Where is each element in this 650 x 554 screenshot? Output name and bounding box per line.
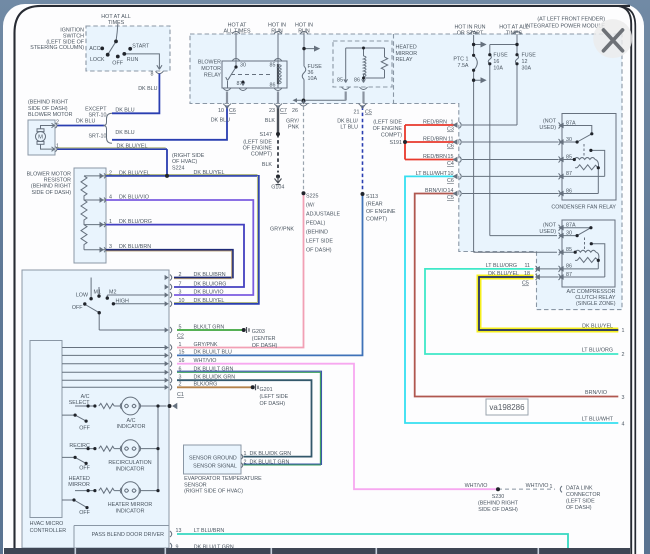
svg-text:EVAPORATOR TEMPERATURE: EVAPORATOR TEMPERATURE <box>184 476 262 482</box>
svg-text:LT BLU/ORG: LT BLU/ORG <box>582 347 613 353</box>
svg-text:MIRROR: MIRROR <box>396 51 418 57</box>
svg-text:DK BLU/YEL: DK BLU/YEL <box>119 170 150 176</box>
svg-text:OF HVAC): OF HVAC) <box>172 159 197 165</box>
gry/pnk solid S225 down to pin1 C2 <box>177 193 304 347</box>
svg-text:DK BLU/LT BLU: DK BLU/LT BLU <box>194 350 233 356</box>
svg-text:30: 30 <box>240 63 246 69</box>
svg-text:SENSOR SIGNAL: SENSOR SIGNAL <box>193 464 237 470</box>
svg-text:10A: 10A <box>308 76 318 82</box>
ignition switch dashed box <box>86 26 170 71</box>
svg-text:A/C: A/C <box>127 418 136 424</box>
svg-text:15: 15 <box>448 154 454 160</box>
svg-text:DK BLU: DK BLU <box>115 108 134 114</box>
lt blu/org wire to pin2 <box>425 269 618 354</box>
svg-text:BRN/VIO: BRN/VIO <box>425 188 447 194</box>
hot at all times right column + fuse12 <box>462 35 517 125</box>
blk/lt grn pin5 to G203 <box>177 329 244 331</box>
svg-text:FUSE: FUSE <box>522 53 537 59</box>
sensor box pins <box>241 454 243 468</box>
svg-text:RECIRC: RECIRC <box>69 443 90 449</box>
wht/vio pin16 to S230 <box>177 364 498 490</box>
svg-text:18: 18 <box>524 271 530 277</box>
integrated power module shaded region <box>190 34 622 310</box>
svg-text:(BEHIND: (BEHIND <box>306 230 328 236</box>
svg-text:8: 8 <box>151 72 154 78</box>
svg-text:1: 1 <box>179 342 182 348</box>
svg-text:S191: S191 <box>390 140 403 146</box>
ground G104 <box>275 177 282 185</box>
svg-text:TIMES: TIMES <box>108 20 125 26</box>
svg-text:87: 87 <box>566 272 572 278</box>
off switch 2 <box>62 457 86 463</box>
IPM dashed outline <box>190 34 622 310</box>
svg-text:OR START: OR START <box>457 31 484 37</box>
svg-text:LT BLU: LT BLU <box>340 125 358 131</box>
svg-text:11: 11 <box>524 263 530 269</box>
dk blu merged to blower motor <box>57 125 105 127</box>
svg-text:10: 10 <box>218 108 224 114</box>
a/c relay 86 87 left gray stubs <box>537 269 559 277</box>
svg-text:OFF: OFF <box>79 466 90 472</box>
condenser relay pin connectors <box>559 123 561 197</box>
svg-text:A/C: A/C <box>81 394 90 400</box>
svg-text:3: 3 <box>179 289 182 295</box>
svg-text:2: 2 <box>179 382 182 388</box>
svg-text:RELAY: RELAY <box>204 72 222 78</box>
svg-text:2: 2 <box>179 272 182 278</box>
svg-text:PEDAL): PEDAL) <box>306 221 326 227</box>
blower relay coil <box>277 61 279 64</box>
condenser relay feed wires inside IPM <box>462 142 559 194</box>
ignition switch wiper feed <box>108 24 118 55</box>
svg-text:(RIGHT SIDE OF HVAC): (RIGHT SIDE OF HVAC) <box>184 489 243 495</box>
svg-text:87A: 87A <box>566 120 576 126</box>
svg-text:7: 7 <box>179 281 182 287</box>
svg-text:SIDE OF DASH): SIDE OF DASH) <box>478 507 518 513</box>
resistor chain <box>84 176 106 250</box>
svg-text:M1: M1 <box>94 290 101 296</box>
svg-text:4: 4 <box>622 422 625 428</box>
svg-text:va198286: va198286 <box>489 403 525 412</box>
wht/vio dashed S230 to data link <box>498 488 555 490</box>
svg-text:10A: 10A <box>493 66 503 72</box>
hvac outer box bottom step <box>74 526 169 549</box>
svg-text:C4: C4 <box>447 161 454 167</box>
svg-text:26: 26 <box>292 108 298 114</box>
svg-text:30: 30 <box>566 230 572 236</box>
svg-text:85: 85 <box>337 78 343 84</box>
svg-text:(BEHIND RIGHT: (BEHIND RIGHT <box>31 184 72 190</box>
svg-text:DATA LINK: DATA LINK <box>566 486 593 492</box>
IPM top bumps <box>232 32 521 35</box>
svg-text:1: 1 <box>550 484 553 490</box>
svg-text:15: 15 <box>179 350 185 356</box>
dk blu/vio resistor pin4 to switch M2 <box>106 200 253 295</box>
ground G203 <box>247 327 250 333</box>
svg-text:2: 2 <box>56 120 59 126</box>
svg-text:OF DASH): OF DASH) <box>252 343 278 349</box>
blower relay feed hot at all times <box>235 33 237 61</box>
svg-text:OF ENGINE: OF ENGINE <box>366 209 396 215</box>
svg-text:(REAR: (REAR <box>366 202 383 208</box>
svg-text:DK BLU/YEL: DK BLU/YEL <box>194 298 225 304</box>
svg-text:WHT/VIO: WHT/VIO <box>194 358 217 364</box>
dk blu srt-10 from relay 87 <box>112 107 227 140</box>
svg-text:16: 16 <box>493 59 499 65</box>
svg-text:1: 1 <box>244 451 247 457</box>
svg-text:LOCK: LOCK <box>90 57 105 63</box>
blower motor symbol <box>36 132 46 142</box>
condenser relay internals <box>562 126 592 143</box>
svg-text:TIMES: TIMES <box>506 31 523 37</box>
blower relay switch <box>226 61 236 88</box>
condenser fan relay box <box>562 114 616 201</box>
svg-text:85: 85 <box>566 247 572 253</box>
svg-text:SELECT: SELECT <box>69 400 91 406</box>
PTC 1 column <box>474 35 557 252</box>
a/c select row <box>75 403 167 409</box>
a/c relay dashed-edge connectors for 86 87 <box>536 266 538 280</box>
hvac outer box fill <box>22 270 169 548</box>
hvac c2 c1 connector rows inside <box>62 348 166 388</box>
dk blu/lt blu solid S113 down <box>177 194 363 355</box>
ignition bottom bump <box>117 25 119 27</box>
heated mirror relay internals <box>344 48 385 83</box>
blower motor resistor box fill <box>74 168 106 263</box>
svg-text:DK BLU/YEL: DK BLU/YEL <box>117 144 148 150</box>
svg-text:INDICATOR: INDICATOR <box>116 466 145 472</box>
svg-text:INDICATOR: INDICATOR <box>117 424 146 430</box>
svg-text:HEATED: HEATED <box>396 45 417 51</box>
svg-text:(BEHIND RIGHT: (BEHIND RIGHT <box>28 100 69 106</box>
svg-text:BLK/ORG: BLK/ORG <box>194 382 218 388</box>
data link connector bracket <box>560 486 562 492</box>
svg-text:RED/BRN: RED/BRN <box>423 120 447 126</box>
blower relay bottom stubs <box>226 92 228 104</box>
svg-text:(LEFT SIDE: (LEFT SIDE <box>566 499 595 505</box>
svg-text:86: 86 <box>566 188 572 194</box>
svg-text:MOTOR: MOTOR <box>201 66 221 72</box>
svg-text:C3: C3 <box>447 127 454 133</box>
svg-text:DK BLU/YEL: DK BLU/YEL <box>194 170 225 176</box>
svg-text:1: 1 <box>56 144 59 150</box>
svg-text:USED): USED) <box>539 229 556 235</box>
svg-text:OF DASH): OF DASH) <box>566 505 592 511</box>
svg-text:SENSOR GROUND: SENSOR GROUND <box>189 455 237 461</box>
svg-text:1: 1 <box>109 219 112 225</box>
gry/pnk dashed pin26 to S225 <box>303 107 305 194</box>
svg-text:SRT-10: SRT-10 <box>88 134 106 140</box>
bottom bar <box>4 548 630 554</box>
svg-text:(NOT: (NOT <box>543 119 557 125</box>
svg-text:(W/: (W/ <box>306 203 315 209</box>
svg-text:ALL TIMES: ALL TIMES <box>223 29 250 35</box>
svg-text:DK BLU: DK BLU <box>138 86 157 92</box>
svg-text:2: 2 <box>244 460 247 466</box>
svg-text:M: M <box>38 135 43 141</box>
svg-text:LT BLU/WHT: LT BLU/WHT <box>416 171 448 177</box>
svg-text:BLK/LT GRN: BLK/LT GRN <box>194 324 225 330</box>
svg-text:87A: 87A <box>566 223 576 229</box>
dk blu/brn resistor pin3 to switch low <box>106 250 233 278</box>
svg-text:C2: C2 <box>177 333 184 339</box>
dk blu/dk grn pin3 to sensor pin1 <box>177 380 312 456</box>
svg-text:C6: C6 <box>229 108 236 114</box>
svg-text:3: 3 <box>109 244 112 250</box>
svg-text:BLK: BLK <box>262 162 273 168</box>
svg-text:CONDENSER FAN RELAY: CONDENSER FAN RELAY <box>551 205 616 211</box>
svg-text:23: 23 <box>269 108 275 114</box>
svg-text:RUN: RUN <box>298 29 310 35</box>
svg-text:6: 6 <box>179 367 182 373</box>
svg-text:G104: G104 <box>271 185 284 191</box>
svg-text:GRY/PNK: GRY/PNK <box>270 227 294 233</box>
svg-text:INTEGRATED POWER MODULE: INTEGRATED POWER MODULE <box>525 23 605 29</box>
svg-text:PASS BLEND DOOR DRIVER: PASS BLEND DOOR DRIVER <box>92 532 164 538</box>
fuse 16 <box>488 45 557 236</box>
svg-text:BLOWER MOTOR: BLOWER MOTOR <box>27 171 72 177</box>
a/c relay pin connectors <box>559 225 561 280</box>
svg-text:DK BLU/ORG: DK BLU/ORG <box>194 281 227 287</box>
svg-text:HEATER MIRROR: HEATER MIRROR <box>108 502 153 508</box>
svg-text:A/C COMPRESSOR: A/C COMPRESSOR <box>567 289 616 295</box>
a/c relay internals <box>562 228 591 236</box>
svg-text:S225: S225 <box>306 194 319 200</box>
svg-text:2: 2 <box>622 352 625 358</box>
svg-text:5: 5 <box>179 324 182 330</box>
svg-text:30A: 30A <box>522 66 532 72</box>
svg-text:13: 13 <box>176 528 182 534</box>
svg-text:DK BLU: DK BLU <box>211 118 230 124</box>
down arrows into colored wires <box>225 105 365 108</box>
resistor pin bumps <box>104 173 106 252</box>
svg-text:COMPT): COMPT) <box>366 217 387 223</box>
off switch 3 <box>62 500 87 508</box>
svg-text:CONNECTOR: CONNECTOR <box>566 492 600 498</box>
svg-text:ACC: ACC <box>89 46 100 52</box>
brn/vio pin14 C5 wire <box>415 194 619 397</box>
svg-text:OF ENGINE: OF ENGINE <box>373 126 403 132</box>
svg-text:16: 16 <box>179 358 185 364</box>
svg-text:FUSE: FUSE <box>493 53 508 59</box>
svg-text:OF DASH): OF DASH) <box>306 248 332 254</box>
blower motor box fill <box>28 120 55 155</box>
fuse 36 tap arrow <box>304 46 319 50</box>
svg-text:RECIRCULATION: RECIRCULATION <box>108 460 151 466</box>
svg-text:DK BLU/ORG: DK BLU/ORG <box>119 219 152 225</box>
heated mirror relay pin85 wire to fuse36 junction <box>296 92 346 100</box>
svg-text:S147: S147 <box>260 132 273 138</box>
svg-text:DK BLU/DK GRN: DK BLU/DK GRN <box>250 451 292 457</box>
va198286 label box <box>486 399 528 415</box>
svg-text:(LEFT SIDE: (LEFT SIDE <box>373 120 402 126</box>
svg-text:14: 14 <box>448 188 454 194</box>
svg-text:BLOWER MOTOR: BLOWER MOTOR <box>28 112 73 118</box>
heated mirror relay dashed box <box>333 41 392 87</box>
svg-text:RELAY: RELAY <box>396 57 414 63</box>
svg-text:OFF: OFF <box>79 510 90 516</box>
svg-text:RED/BRN: RED/BRN <box>423 154 447 160</box>
svg-text:RUN: RUN <box>271 29 283 35</box>
svg-text:C5: C5 <box>447 195 454 201</box>
lt blu/wht pin10 C6 wire <box>405 176 618 423</box>
svg-text:USED): USED) <box>539 125 556 131</box>
svg-text:DK BLU/YEL: DK BLU/YEL <box>488 271 519 277</box>
svg-text:COMPT): COMPT) <box>381 133 402 139</box>
svg-text:CONTROLLER: CONTROLLER <box>30 528 67 534</box>
svg-text:GRY/PNK: GRY/PNK <box>194 342 218 348</box>
svg-text:DK BLU/BRN: DK BLU/BRN <box>119 244 151 250</box>
svg-text:2: 2 <box>109 170 112 176</box>
svg-text:12: 12 <box>522 59 528 65</box>
svg-text:3: 3 <box>622 395 625 401</box>
dk blu/yel S224 row to switch high <box>106 175 259 304</box>
IPM internal dashed divider <box>393 34 395 104</box>
svg-text:HEATED: HEATED <box>69 476 90 482</box>
svg-text:21: 21 <box>354 110 360 116</box>
svg-text:OF DASH): OF DASH) <box>260 401 286 407</box>
svg-text:SRT-10: SRT-10 <box>88 113 106 119</box>
svg-text:RESISTOR: RESISTOR <box>44 178 71 184</box>
dk blu/yel blower motor pin1 to S224 <box>57 148 167 176</box>
svg-text:G201: G201 <box>260 387 273 393</box>
svg-text:LT BLU/ORG: LT BLU/ORG <box>486 263 517 269</box>
ignition switch box fill <box>86 26 170 71</box>
blower motor relay solid box <box>222 61 287 88</box>
svg-text:86: 86 <box>270 83 276 89</box>
svg-text:C1: C1 <box>177 392 184 398</box>
svg-text:DK BLU/DK GRN: DK BLU/DK GRN <box>194 375 236 381</box>
svg-text:DK BLU/VIO: DK BLU/VIO <box>119 195 149 201</box>
ignition run wire <box>124 54 159 69</box>
svg-text:BLK: BLK <box>265 118 276 124</box>
svg-text:DK BLU: DK BLU <box>115 130 134 136</box>
svg-text:CLUTCH RELAY: CLUTCH RELAY <box>575 295 616 301</box>
svg-text:DK BLU: DK BLU <box>76 119 95 125</box>
evaporator sensor box fill <box>184 445 242 474</box>
resistor box pin arrows <box>100 174 103 252</box>
svg-text:WHT/VIO: WHT/VIO <box>526 483 549 489</box>
svg-text:DK BLU/VIO: DK BLU/VIO <box>194 289 224 295</box>
svg-text:START: START <box>132 44 150 50</box>
svg-text:(AT LEFT FRONT FENDER): (AT LEFT FRONT FENDER) <box>537 17 605 23</box>
svg-text:G203: G203 <box>252 329 265 335</box>
blower motor pin arrows <box>51 123 57 128</box>
svg-text:BLOWER: BLOWER <box>198 60 221 66</box>
svg-text:LT BLU/WHT: LT BLU/WHT <box>582 416 614 422</box>
svg-text:DK BLU/YEL: DK BLU/YEL <box>582 323 613 329</box>
IPM bottom connectors 10 23 26 21 <box>223 104 367 107</box>
recirc row <box>75 446 158 452</box>
svg-text:(CENTER: (CENTER <box>252 336 276 342</box>
svg-text:PNK: PNK <box>288 125 299 131</box>
fuse 36 column <box>303 33 305 100</box>
svg-text:MIRROR: MIRROR <box>68 482 90 488</box>
bumps at relay box edges <box>223 59 282 91</box>
svg-text:DK BLU/LT GRN: DK BLU/LT GRN <box>250 460 290 466</box>
svg-text:10: 10 <box>448 171 454 177</box>
svg-text:M2: M2 <box>109 290 116 296</box>
svg-text:(NOT: (NOT <box>543 223 557 229</box>
svg-text:7.5A: 7.5A <box>458 63 469 69</box>
svg-text:85: 85 <box>566 154 572 160</box>
svg-text:RUN: RUN <box>127 57 139 63</box>
dk blu ignition run feed <box>112 74 159 114</box>
off switch 1 <box>62 415 86 421</box>
svg-text:STEERING COLUMN): STEERING COLUMN) <box>30 45 84 51</box>
IPM left edge connectors (pins 1,11,15,10,14) <box>453 123 457 196</box>
svg-text:RED/BRN: RED/BRN <box>423 137 447 143</box>
svg-text:DK BLU/LT GRN: DK BLU/LT GRN <box>194 367 234 373</box>
hvac rows connectors at x~170 <box>165 275 177 550</box>
svg-text:PTC 1: PTC 1 <box>453 57 468 63</box>
dk blu/lt blu dashed pin21 to S113 <box>362 107 364 195</box>
fuse 36 element <box>302 66 306 79</box>
svg-text:(BEHIND RIGHT: (BEHIND RIGHT <box>478 500 519 506</box>
svg-text:SIDE OF DASH): SIDE OF DASH) <box>28 106 68 112</box>
fan switch <box>86 278 166 331</box>
blk wire pin23 to S147 <box>277 107 279 135</box>
svg-text:86: 86 <box>354 78 360 84</box>
svg-text:30: 30 <box>566 137 572 143</box>
svg-text:86: 86 <box>566 264 572 270</box>
svg-text:4: 4 <box>109 195 112 201</box>
svg-text:C5: C5 <box>365 110 372 116</box>
heated mirror row <box>75 488 158 494</box>
blk dashed S147 to G104 <box>277 134 279 173</box>
ground G201 <box>256 384 259 390</box>
blower relay 87 stub <box>241 82 245 86</box>
blower relay feed hot in run <box>277 33 279 61</box>
svg-text:(SINGLE ZONE): (SINGLE ZONE) <box>576 301 616 307</box>
svg-text:ADJUSTABLE: ADJUSTABLE <box>306 212 340 218</box>
svg-text:87: 87 <box>237 81 243 87</box>
dk blu/lt grn pin6 to sensor pin2 <box>177 372 320 465</box>
lt blu/brn pin13 wire <box>177 534 568 548</box>
svg-text:C7: C7 <box>280 108 287 114</box>
svg-text:COMPT): COMPT) <box>251 152 272 158</box>
svg-text:C6: C6 <box>447 144 454 150</box>
svg-text:85: 85 <box>270 63 276 69</box>
svg-text:(LEFT SIDE: (LEFT SIDE <box>260 394 289 400</box>
dk blu/org resistor pin1 to switch M1 <box>106 225 244 287</box>
svg-text:OFF: OFF <box>112 61 123 67</box>
svg-text:LT BLU/BRN: LT BLU/BRN <box>194 528 225 534</box>
svg-text:C5: C5 <box>522 281 529 287</box>
red/brn wires S191 <box>405 125 456 160</box>
ignition connector arrow <box>157 65 162 69</box>
svg-text:DK BLU/BRN: DK BLU/BRN <box>194 272 226 278</box>
svg-text:C6: C6 <box>447 178 454 184</box>
svg-text:OFF: OFF <box>79 426 90 432</box>
svg-text:SENSOR: SENSOR <box>184 482 207 488</box>
svg-text:INDICATOR: INDICATOR <box>116 508 145 514</box>
svg-text:HIGH: HIGH <box>116 298 130 304</box>
svg-text:LOW: LOW <box>76 293 89 299</box>
svg-text:1: 1 <box>451 120 454 126</box>
svg-text:SIDE OF DASH): SIDE OF DASH) <box>32 190 72 196</box>
a/c compressor clutch relay box <box>562 220 615 287</box>
svg-text:S230: S230 <box>492 494 505 500</box>
svg-text:87: 87 <box>566 171 572 177</box>
svg-text:S113: S113 <box>366 194 378 200</box>
brace merge <box>104 113 113 143</box>
svg-text:HVAC MICRO: HVAC MICRO <box>30 521 64 527</box>
svg-text:LEFT SIDE: LEFT SIDE <box>306 239 333 245</box>
hvac micro controller inner box <box>30 341 62 518</box>
svg-text:S224: S224 <box>172 166 185 172</box>
svg-text:OFF: OFF <box>72 305 83 311</box>
